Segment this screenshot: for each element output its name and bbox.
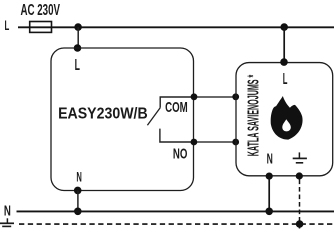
flame icon: [271, 96, 303, 140]
junction dot: NO at EASY edge: [191, 139, 198, 146]
terminal dot: NO wire at boiler edge: [232, 139, 239, 146]
terminal dot: EASY230W/B L terminal: [74, 44, 82, 52]
wire: stub boiler N to N rail: [268, 176, 270, 211]
terminal dot: boiler L terminal: [280, 58, 288, 66]
relay contact: NO stub: [160, 129, 194, 142]
svg-text:N: N: [267, 151, 273, 167]
junction dot: COM at EASY edge: [191, 93, 198, 100]
wire: stub L rail to boiler L terminal: [283, 27, 285, 62]
terminal dot: EASY N terminal: [74, 187, 82, 195]
svg-text:L: L: [5, 18, 10, 33]
junction dot: L rail to boiler: [280, 23, 288, 31]
svg-text:KATLA SAVIENOJUMS *: KATLA SAVIENOJUMS *: [246, 74, 263, 156]
wire: stub EASY N to N rail: [77, 190, 79, 211]
junction dot: EASY N on N rail: [74, 208, 82, 216]
svg-text:N: N: [4, 204, 11, 220]
terminal dot: boiler N terminal: [266, 173, 273, 180]
junction dot: L rail to EASY230W/B: [74, 23, 82, 31]
terminal dot: COM wire at boiler edge: [232, 93, 239, 100]
wire: L supply rail: [18, 26, 334, 28]
svg-text:AC 230V: AC 230V: [21, 2, 61, 19]
svg-text:L: L: [283, 71, 288, 88]
wire: PE rail (dashed): [19, 223, 334, 225]
wire: dashed PE stub boiler to PE rail: [299, 180, 301, 229]
svg-text:COM: COM: [165, 100, 188, 116]
fuse F1: [30, 22, 52, 33]
wire: NO to boiler: [194, 141, 236, 143]
earth symbol (PE rail, left): [0, 218, 14, 226]
wire: COM to boiler: [194, 96, 236, 98]
svg-text:NO: NO: [173, 146, 188, 162]
svg-text:EASY230W/B: EASY230W/B: [58, 106, 148, 123]
boiler enclosure KATLA SAVIENOJUMS: [236, 63, 333, 176]
junction dot: boiler N on N rail: [265, 208, 273, 216]
device EASY230W/B enclosure: [51, 48, 194, 191]
wire: stub from L rail to EASY L terminal: [77, 27, 79, 48]
relay contact: COM stub: [160, 97, 194, 108]
svg-text:L: L: [75, 57, 80, 74]
svg-text:N: N: [76, 168, 82, 184]
terminal dot: boiler PE terminal: [296, 172, 303, 179]
junction dot: boiler PE on PE rail: [296, 220, 304, 228]
earth symbol (boiler PE terminal): [293, 152, 307, 162]
relay contact blade (open switch): [147, 108, 160, 126]
wire: N supply rail: [17, 210, 334, 212]
